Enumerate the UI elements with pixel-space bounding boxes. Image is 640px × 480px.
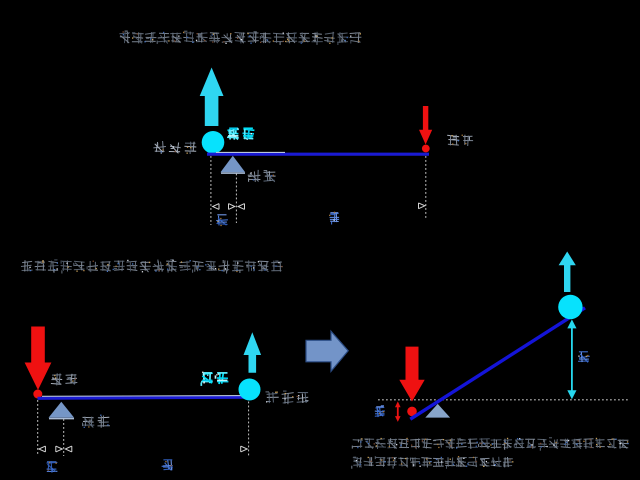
sayouten2 <box>266 391 309 404</box>
dotted ground line (diagram3) <box>378 399 630 401</box>
dotted guide below load (diagram2) <box>248 402 250 457</box>
chou1 <box>329 212 339 225</box>
caption line2 <box>352 456 514 469</box>
beam wire (diagram1 lever bar) <box>207 152 429 154</box>
fuka1 <box>227 128 254 140</box>
chou3 <box>578 352 590 363</box>
effort arrow small red down (diagram1 力点) <box>419 106 432 145</box>
tan1 <box>216 215 228 226</box>
dimension arrows short span (diagram1) <box>213 204 235 210</box>
effort arrow big red down (diagram3) <box>399 347 424 402</box>
load arrow cyan up (diagram2) <box>244 332 262 373</box>
dotted guide line below load ball (diagram1) <box>210 156 212 225</box>
dimension arrows long span (diagram2) <box>65 446 247 452</box>
dotted guide line below fulcrum (diagram1) <box>235 174 237 224</box>
dimension arrows long span (diagram1) <box>238 203 425 210</box>
sayouten1 <box>153 141 196 154</box>
shiten1 <box>248 170 276 182</box>
caption line1 <box>352 438 628 451</box>
load arrow cyan up (diagram3) <box>559 252 576 293</box>
big block arrow between diagrams <box>306 331 348 371</box>
effort point red ball (diagram3) <box>407 407 417 417</box>
title2 pseudo-glyph text <box>21 260 283 274</box>
fulcrum triangle 支点 (diagram2) <box>49 402 75 419</box>
tan3 <box>375 406 385 417</box>
chou2 <box>162 460 173 471</box>
load arrow big cyan up (diagram1) <box>200 68 224 127</box>
beam wire (diagram2 lever bar) <box>38 396 251 399</box>
dimension arrows short span (diagram2) <box>39 446 62 452</box>
tilted beam wire (diagram3) <box>410 308 585 419</box>
effort point red ball (diagram2) <box>33 390 42 399</box>
dotted guide below fulcrum (diagram2) <box>63 419 65 456</box>
tan2 <box>47 461 58 472</box>
rikiten1 <box>447 135 473 146</box>
effort point red ball (diagram1) <box>422 145 430 153</box>
effort arrow big red down (diagram2 力点) <box>25 327 52 391</box>
fuka2 <box>201 372 228 386</box>
small red double-head arrow 短 span (diagram3) <box>395 401 401 422</box>
fulcrum triangle (diagram3) <box>425 404 450 418</box>
dotted guide line below effort point (diagram1) <box>425 156 427 220</box>
dotted guide below effort (diagram2) <box>37 400 39 456</box>
cyan double-head measure arrow 長 (diagram3) <box>567 319 576 399</box>
title1 pseudo-glyph text <box>119 31 361 45</box>
load ball cyan (diagram1 作用点) <box>202 131 225 154</box>
load ball cyan (diagram2 作用点) <box>239 379 261 401</box>
load ball cyan (diagram3) <box>558 295 582 319</box>
shiten2 <box>83 415 111 428</box>
fulcrum triangle 支点 (diagram1) <box>221 156 246 173</box>
rikiten2 <box>51 373 77 385</box>
